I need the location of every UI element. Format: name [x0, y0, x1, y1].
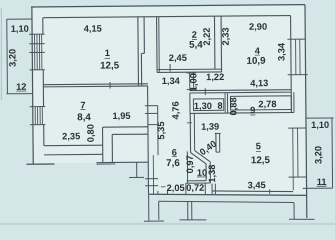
balcony 11 right edge	[331, 118, 334, 188]
svg-text:1,38: 1,38	[207, 165, 217, 183]
corridor wall left line	[189, 113, 191, 152]
room 9 left outer line	[226, 93, 228, 113]
svg-text:5,35: 5,35	[156, 121, 166, 139]
outer wall top	[31, 5, 305, 7]
porch right wall	[102, 127, 104, 162]
room 10 diagonal outer	[191, 152, 206, 164]
room 6 west closet top box bottom	[145, 112, 158, 114]
svg-text:0,80: 0,80	[86, 124, 96, 142]
room 6 number underline	[172, 156, 177, 158]
room 10 right wall inner	[209, 162, 211, 183]
bathroom top inner line	[112, 133, 148, 135]
photo edge bottom faint band	[0, 223, 335, 225]
room 1 number underline	[105, 57, 110, 59]
room 11 number underline	[317, 185, 327, 187]
svg-text:1,34: 1,34	[162, 76, 181, 86]
wall room4 bottom tick	[204, 88, 206, 95]
corridor stub wall left line	[189, 72, 191, 90]
svg-text:4,15: 4,15	[84, 24, 102, 34]
svg-text:1,30: 1,30	[194, 101, 212, 111]
building interior fill	[32, 5, 307, 196]
room 10 diagonal inner	[195, 150, 211, 162]
room 8 left outer line	[189, 93, 191, 113]
left wall window-2 bottom tick	[30, 124, 45, 126]
room 12 number underline	[16, 90, 26, 92]
svg-text:10,9: 10,9	[246, 56, 266, 67]
room 6 west closet right line	[157, 106, 159, 155]
svg-text:1,39: 1,39	[201, 122, 219, 132]
corridor stub dim tick bottom	[187, 89, 196, 91]
room 2 left wall inner line	[158, 17, 160, 73]
loggia right inner edge	[293, 202, 295, 219]
room 10 bottom lower line	[186, 182, 211, 184]
room 7 number underline	[80, 108, 85, 110]
corridor wall right line	[193, 113, 195, 150]
right wall window-2 pane line 2	[297, 128, 299, 177]
svg-text:12,5: 12,5	[251, 155, 271, 166]
room 10 left wall	[186, 151, 188, 183]
shaft wall jog	[141, 52, 144, 54]
left wall end foot	[26, 163, 54, 165]
bottom wall door tick B	[166, 191, 168, 195]
porch band bottom line	[44, 153, 103, 156]
svg-text:2,78: 2,78	[258, 99, 276, 109]
wall room1/room7 upper line	[43, 83, 148, 86]
inner wall right upper	[290, 16, 293, 113]
inner wall top	[43, 16, 290, 18]
svg-text:11: 11	[317, 177, 327, 187]
wing bottom edge foot	[96, 163, 115, 165]
loggia top edge	[158, 200, 293, 204]
inner wall left lower segment	[43, 125, 45, 146]
bottom wall lower line	[149, 193, 307, 197]
right wall window-1 pane line 1	[295, 39, 297, 74]
bottom wall upper line room 5	[212, 190, 293, 192]
left wall window-1 mid tick A	[29, 43, 44, 45]
room 6 west wall window tick A	[145, 178, 158, 180]
room 5 left wall end tick	[216, 151, 220, 153]
left wall window-1 mid tick B	[29, 51, 44, 53]
room 2 bottom door tick	[169, 64, 171, 71]
balcony 12 bottom edge	[6, 93, 32, 95]
loggia left post foot	[144, 220, 164, 222]
left wall window-2 pane line 3	[39, 107, 41, 125]
room 5 lower-left wall line B	[214, 184, 216, 195]
room 2 bottom wall outer line	[157, 71, 222, 74]
room 4 number underline	[255, 54, 260, 56]
svg-text:5: 5	[256, 141, 261, 151]
right wall window-2 pane line 1	[292, 128, 295, 190]
corridor stub wall right line	[193, 72, 195, 90]
left wall window-2 pane line 1	[34, 107, 36, 125]
inner wall left mid segment	[42, 70, 44, 106]
svg-text:7: 7	[80, 100, 85, 110]
svg-text:1,95: 1,95	[112, 111, 130, 121]
svg-text:2,90: 2,90	[249, 22, 267, 32]
svg-text:10: 10	[197, 168, 207, 178]
right wall window-1 top tick	[287, 38, 305, 40]
room 2 bottom wall inner line	[157, 68, 222, 71]
room 2 number underline	[192, 38, 197, 40]
bathroom top outer line	[103, 126, 149, 128]
svg-text:2,05: 2,05	[167, 183, 185, 193]
room 6 west wall window tick B	[145, 185, 158, 187]
room 5 left wall outer line	[215, 133, 217, 152]
svg-text:2,22: 2,22	[202, 28, 212, 46]
svg-text:2,35: 2,35	[62, 131, 80, 141]
left wall window-2 pane line 4	[41, 107, 43, 125]
wall room2/room4 right line	[220, 16, 222, 72]
room 9 closet inner box	[230, 96, 291, 110]
loggia mid post line A	[187, 202, 189, 220]
porch band top line	[44, 144, 103, 147]
left wall window-1 top tick	[29, 33, 44, 35]
room 5 number underline	[256, 150, 261, 152]
svg-text:1: 1	[105, 48, 110, 58]
wall room4 bottom lower line	[190, 91, 292, 94]
left wall window-1 pane line 4	[41, 34, 43, 70]
room 8 right outer line	[224, 93, 226, 113]
left wall window-1 pane line 2	[36, 34, 38, 70]
left wall window-1 pane line 3	[38, 34, 40, 70]
room 6 west closet shelf line	[148, 124, 158, 126]
porch post foot	[129, 176, 144, 178]
right wall window-2 bottom tick	[289, 176, 307, 178]
loggia mid post foot	[179, 219, 206, 221]
svg-text:12,5: 12,5	[100, 60, 120, 71]
closets bottom outer line	[190, 111, 294, 114]
left wall window-2 top tick	[30, 106, 45, 108]
room 10 bottom upper line	[187, 180, 207, 182]
room 6 west wall outer line	[147, 86, 150, 195]
loggia mid post line B	[191, 202, 193, 220]
left wall window-2 pane line 2	[37, 107, 39, 125]
room 8 closet inner box	[193, 99, 223, 111]
corridor door tick	[187, 122, 192, 124]
balcony 11 bottom edge	[303, 187, 333, 189]
svg-text:6: 6	[172, 147, 177, 157]
right wall window-2 top tick	[288, 127, 306, 129]
shaft wall right upper line	[143, 17, 145, 54]
bathroom left inner wall	[111, 134, 113, 162]
room 5 left wall cap tick	[215, 132, 221, 134]
wall room1/room7 door tick	[109, 82, 111, 88]
room 2 left wall outer line	[156, 17, 158, 73]
shaft wall right lower line	[140, 53, 142, 86]
loggia left post outer	[148, 195, 150, 221]
room 10 right wall outer	[205, 164, 207, 181]
svg-text:0,72: 0,72	[186, 183, 204, 193]
svg-text:9: 9	[250, 105, 255, 115]
outer wall right	[305, 5, 307, 218]
under-10 box left line	[185, 183, 187, 194]
svg-text:2,33: 2,33	[221, 27, 231, 45]
room 9 number underline	[250, 114, 255, 116]
room 5 left wall inner line	[219, 133, 221, 152]
svg-text:4,13: 4,13	[250, 78, 268, 88]
balcony 11 top edge	[306, 117, 333, 119]
loggia bottom right edge	[289, 218, 315, 221]
svg-text:12: 12	[16, 82, 26, 92]
svg-text:3,45: 3,45	[248, 180, 266, 190]
svg-text:0,88: 0,88	[228, 97, 238, 115]
svg-text:0,97: 0,97	[185, 155, 195, 173]
dim tick before 2,05	[161, 186, 165, 188]
svg-text:3,34: 3,34	[276, 42, 286, 61]
wall room4 bottom upper line	[190, 89, 292, 92]
wing bottom edge	[96, 161, 148, 163]
svg-text:4: 4	[255, 46, 261, 56]
svg-text:1,10: 1,10	[11, 24, 29, 34]
svg-text:1,22: 1,22	[206, 72, 224, 82]
svg-text:3,20: 3,20	[313, 146, 323, 164]
svg-text:2: 2	[192, 30, 197, 40]
bottom wall door tick C	[269, 189, 271, 193]
balcony 12 left edge	[6, 19, 9, 94]
svg-text:1,10: 1,10	[311, 120, 329, 130]
wall room2/room4 left line	[213, 16, 215, 69]
under-10 box right line	[204, 183, 206, 194]
svg-text:3,20: 3,20	[7, 49, 17, 67]
bottom wall door tick A	[157, 191, 159, 195]
room 10 number underline	[197, 176, 207, 178]
corridor stub dim tick	[187, 72, 196, 74]
photo edge left faint line	[0, 8, 2, 100]
svg-text:8,4: 8,4	[77, 112, 91, 123]
right wall window-1 pane line 2	[299, 39, 301, 74]
porch post	[136, 162, 138, 177]
svg-text:2,45: 2,45	[169, 53, 187, 63]
left wall window-1 bottom tick	[29, 69, 44, 71]
room 6 west wall lower second line	[152, 155, 154, 195]
room 5 lower-left wall line A	[211, 184, 213, 195]
shaft wall left line	[137, 17, 140, 86]
room 6 west closet top box top	[145, 105, 158, 107]
svg-text:8: 8	[217, 101, 222, 111]
balcony 12 top edge	[7, 18, 32, 20]
right wall window-1 bottom tick	[288, 74, 308, 76]
wall room1/room7 lower line	[43, 85, 148, 88]
loggia left post inner	[158, 202, 160, 220]
outer wall left	[32, 7, 33, 164]
svg-text:1,00: 1,00	[188, 73, 198, 91]
left wall window-1 pane line 1	[34, 34, 36, 70]
room 9 right outer line	[293, 92, 295, 112]
inner wall left upper segment	[42, 18, 44, 34]
svg-text:7,6: 7,6	[166, 158, 180, 169]
svg-text:4,76: 4,76	[171, 101, 181, 119]
